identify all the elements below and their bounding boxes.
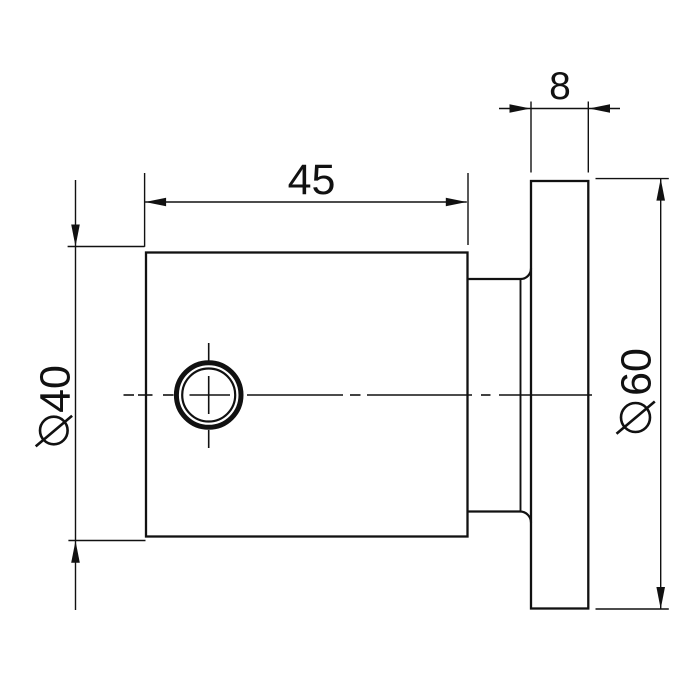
- dim 45 extension lines: [145, 173, 468, 247]
- neck step bottom edge with fillet: [468, 512, 532, 523]
- svg-text:8: 8: [549, 65, 571, 108]
- svg-text:45: 45: [288, 156, 336, 204]
- svg-text:40: 40: [31, 365, 79, 413]
- circle vertical centerline: [208, 343, 210, 448]
- dim dia60 line: [660, 179, 662, 609]
- dim dia60 extension lines: [596, 179, 669, 609]
- flange (wall plate) outline: [531, 181, 588, 609]
- dim 45 line: [145, 201, 467, 203]
- circle crosshair: [190, 376, 231, 414]
- horizontal centerline: [124, 394, 593, 396]
- dia60 diameter symbol: [617, 402, 655, 434]
- dim 8 extension lines: [499, 102, 620, 173]
- body outline: [146, 253, 468, 537]
- arrowhead dia40 top (points down): [71, 225, 80, 247]
- arrowhead 8 right (points left): [589, 104, 610, 113]
- arrowhead 8 left (points right): [510, 104, 531, 113]
- dia40 diameter symbol: [36, 416, 72, 447]
- arrowhead dia60 bottom (points down): [656, 587, 665, 609]
- svg-text:60: 60: [613, 348, 661, 396]
- dim dia40 line: [75, 180, 77, 610]
- arrowhead dia40 bottom (points up): [71, 541, 80, 563]
- arrowhead dia60 top (points up): [656, 179, 665, 201]
- arrowhead 45 left: [145, 198, 166, 207]
- arrowhead 45 right: [446, 198, 467, 207]
- handle circle outer ring: [176, 363, 241, 428]
- handle circle inner ring: [182, 369, 235, 422]
- neck step top edge with fillet: [468, 269, 532, 280]
- dim 8 line: [499, 108, 620, 110]
- dim dia40 extension lines: [68, 180, 146, 610]
- neck fillet tangent line: [520, 279, 522, 512]
